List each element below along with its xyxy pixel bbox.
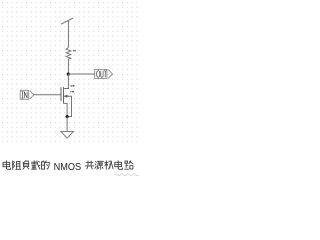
transistor M1 channel bar — [63, 87, 65, 103]
阻 — [13, 161, 21, 170]
transistor M1 bulk arrow — [64, 95, 67, 97]
共 — [85, 161, 93, 169]
ground symbol — [61, 131, 74, 138]
电 — [3, 161, 11, 170]
载 — [31, 161, 40, 170]
caption: 电阻负载的 NMOS 共源极电路 (hand-drawn CJK strokes) — [3, 161, 133, 170]
源 — [95, 161, 104, 169]
负 — [23, 161, 29, 170]
node source junction dot — [66, 115, 69, 118]
wire source lead down — [64, 103, 68, 117]
transistor M1 (NMOS) gate bar — [60, 87, 62, 101]
wire output node to OUT connector — [68, 73, 94, 75]
极 — [105, 161, 114, 170]
wire VDD to resistor R1 top — [67, 21, 69, 48]
wire resistor bottom to output node — [67, 59, 69, 74]
wire source node to ground — [66, 117, 68, 132]
grid dot background — [0, 0, 140, 145]
wire IN connector to gate — [34, 94, 61, 96]
transistor M1 name labels (tiny) — [71, 85, 72, 87]
电 — [115, 161, 123, 170]
的 — [41, 161, 49, 169]
wire output node down to transistor drain — [64, 74, 69, 89]
connector flag OUT — [95, 69, 113, 78]
resistor R1 — [66, 48, 71, 60]
wire bulk to source (right side) — [64, 96, 72, 116]
resistor R1 value label (tiny) — [73, 50, 74, 52]
svg-text:NMOS: NMOS — [54, 162, 82, 173]
node OUT junction dot — [67, 73, 70, 76]
路 — [125, 161, 133, 169]
wavy proofing underline under 电路 — [115, 174, 139, 176]
connector flag IN — [20, 90, 34, 99]
power supply VDD diagonal symbol — [61, 18, 73, 24]
